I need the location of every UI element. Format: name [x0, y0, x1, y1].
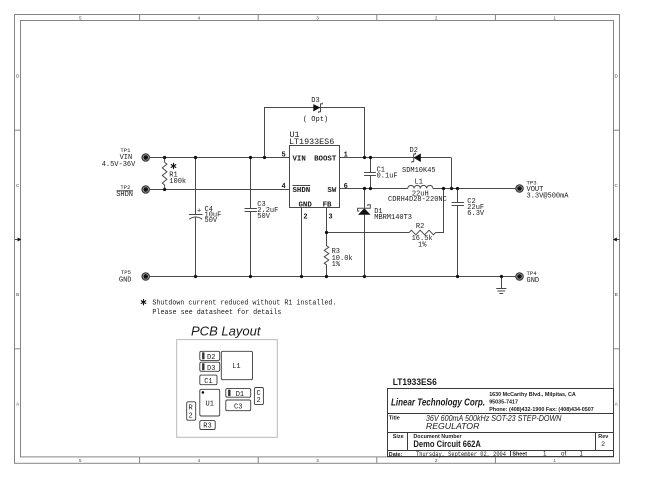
svg-text:SHDN: SHDN — [293, 187, 311, 195]
wire SHDN — [149, 189, 289, 191]
svg-text:50V: 50V — [257, 213, 270, 221]
svg-text:SDM10K45: SDM10K45 — [402, 167, 436, 175]
svg-text:GND: GND — [119, 277, 132, 285]
resistor R3 — [324, 233, 352, 277]
PCB footprint C2 — [254, 388, 263, 406]
svg-text:U1: U1 — [206, 400, 214, 408]
diode D1 — [358, 189, 412, 277]
wire SW — [340, 188, 408, 190]
ground — [496, 277, 506, 294]
svg-text:D1: D1 — [236, 391, 244, 399]
wire U1 FB pin — [326, 208, 328, 233]
svg-text:2: 2 — [435, 16, 438, 21]
test point TP3 — [516, 179, 569, 200]
svg-text:L1: L1 — [415, 179, 423, 187]
svg-text:2: 2 — [189, 412, 193, 420]
note shutdown — [141, 299, 337, 317]
svg-text:GND: GND — [527, 277, 540, 285]
junction dots GND rail — [194, 275, 503, 278]
PCB footprint C1 — [200, 375, 217, 386]
svg-text:5: 5 — [281, 151, 285, 159]
wire U1 GND pin — [301, 208, 303, 277]
svg-text:1: 1 — [553, 458, 556, 463]
svg-text:R3: R3 — [203, 423, 211, 431]
svg-text:2: 2 — [601, 441, 605, 448]
svg-text:3: 3 — [316, 458, 319, 463]
svg-text:C1: C1 — [204, 378, 212, 386]
svg-text:L1: L1 — [232, 363, 240, 371]
svg-text:Sheet: Sheet — [512, 452, 527, 458]
svg-text:R2: R2 — [416, 223, 424, 231]
svg-text:3.3V@500mA: 3.3V@500mA — [527, 193, 570, 201]
svg-text:Linear Technology Corp.: Linear Technology Corp. — [391, 398, 485, 409]
svg-text:of: of — [561, 451, 566, 458]
svg-text:4: 4 — [198, 458, 201, 463]
svg-text:1%: 1% — [418, 242, 427, 250]
svg-text:TP1: TP1 — [120, 147, 131, 154]
svg-text:B: B — [16, 292, 19, 297]
diode D3 (Opt) — [303, 97, 328, 124]
test point TP4 — [516, 270, 539, 285]
svg-text:TP2: TP2 — [120, 184, 130, 191]
PCB footprint R3 — [200, 421, 215, 431]
test point TP1 — [102, 147, 150, 169]
svg-text:CDRH4D28-220NC: CDRH4D28-220NC — [388, 196, 447, 204]
svg-text:Date:: Date: — [389, 452, 403, 458]
capacitor C2 — [452, 189, 485, 277]
svg-text:6: 6 — [344, 183, 348, 191]
svg-text:Phone: (408)432-1900 Fax: (408: Phone: (408)432-1900 Fax: (408)434-0507 — [489, 407, 594, 413]
svg-text:D2: D2 — [410, 147, 418, 155]
svg-text:4: 4 — [281, 183, 285, 191]
svg-text:1: 1 — [543, 451, 547, 458]
junction dot FB node — [325, 231, 328, 234]
svg-text:Size: Size — [393, 434, 404, 440]
svg-text:Please see datasheet for detai: Please see datasheet for details — [152, 309, 281, 317]
svg-text:Demo Circuit 662A: Demo Circuit 662A — [413, 439, 481, 449]
svg-text:4: 4 — [198, 16, 201, 21]
wire GND rail — [149, 276, 516, 278]
svg-text:1%: 1% — [332, 261, 341, 269]
wire D2 to VOUT — [451, 158, 453, 189]
svg-text:GND: GND — [299, 201, 313, 209]
svg-text:2: 2 — [303, 213, 307, 221]
PCB footprint D3 — [200, 362, 220, 373]
wire FB to R2 — [327, 232, 410, 234]
resistor R1 — [162, 158, 186, 190]
svg-text:6.3V: 6.3V — [467, 210, 485, 218]
svg-text:1: 1 — [553, 16, 556, 21]
PCB footprint D2 — [200, 351, 220, 362]
PCB footprint L1 — [221, 351, 252, 379]
svg-text:C3: C3 — [234, 404, 242, 412]
svg-text:LT1933ES6: LT1933ES6 — [393, 377, 437, 387]
svg-text:( Opt): ( Opt) — [303, 116, 328, 124]
svg-text:Shutdown current reduced witho: Shutdown current reduced without R1 inst… — [152, 300, 336, 308]
PCB board outline — [177, 340, 278, 438]
svg-text:REGULATOR: REGULATOR — [426, 421, 480, 431]
PCB footprint C3 — [226, 400, 251, 412]
svg-text:B: B — [615, 292, 618, 297]
test point TP5 — [119, 269, 149, 285]
svg-text:3: 3 — [316, 16, 319, 21]
wire VOUT — [433, 188, 516, 190]
wire D3 branch — [265, 108, 365, 158]
diode D2 — [402, 147, 436, 175]
svg-text:4.5V-36V: 4.5V-36V — [102, 161, 136, 169]
wire VIN rail — [149, 157, 289, 159]
test point TP2 — [116, 184, 149, 199]
svg-text:MBRM140T3: MBRM140T3 — [374, 214, 412, 222]
svg-text:+: + — [197, 207, 201, 215]
svg-text:FB: FB — [323, 201, 332, 209]
svg-text:100k: 100k — [169, 178, 186, 186]
svg-text:95035-7417: 95035-7417 — [489, 399, 518, 405]
svg-text:D2: D2 — [207, 354, 215, 362]
capacitor C1 — [364, 158, 398, 189]
svg-text:5: 5 — [79, 16, 82, 21]
svg-text:Rev: Rev — [598, 434, 608, 440]
svg-text:2: 2 — [257, 397, 261, 405]
svg-text:SW: SW — [327, 187, 336, 195]
svg-text:1: 1 — [580, 451, 584, 458]
svg-text:VIN: VIN — [293, 155, 306, 163]
svg-text:1: 1 — [344, 151, 348, 159]
junction dots VIN row — [163, 156, 266, 159]
svg-text:PCB Layout: PCB Layout — [191, 325, 261, 339]
PCB footprint D1 — [226, 389, 251, 399]
svg-text:LT1933ES6: LT1933ES6 — [289, 137, 334, 147]
svg-text:Thursday, September 02, 2004: Thursday, September 02, 2004 — [416, 451, 506, 458]
PCB footprint U1 — [200, 389, 220, 416]
svg-text:D3: D3 — [311, 97, 319, 105]
PCB layout heading — [191, 325, 261, 339]
svg-text:BOOST: BOOST — [314, 155, 337, 163]
svg-text:0.1uF: 0.1uF — [377, 173, 398, 181]
wire BOOST — [340, 157, 452, 159]
svg-text:TP5: TP5 — [121, 269, 131, 276]
inductor L1 — [388, 179, 447, 204]
svg-text:3: 3 — [328, 213, 332, 221]
resistor R2 — [409, 223, 435, 250]
wire R2 to VOUT — [436, 189, 444, 233]
svg-text:50V: 50V — [205, 217, 218, 225]
PCB footprint R2 — [187, 402, 196, 421]
svg-text:2: 2 — [435, 458, 438, 463]
svg-text:SHDN: SHDN — [116, 191, 133, 199]
capacitor C4 — [189, 158, 221, 277]
junction dots SW-VOUT row — [363, 187, 459, 190]
svg-text:Title: Title — [389, 415, 400, 421]
capacitor C3 — [245, 158, 279, 277]
junction dots BOOST row — [363, 156, 372, 159]
svg-text:1630 McCarthy Blvd., Milpitas,: 1630 McCarthy Blvd., Milpitas, CA — [489, 392, 576, 398]
svg-text:5: 5 — [79, 458, 82, 463]
IC U1 LT1933ES6 — [281, 130, 347, 221]
svg-text:D3: D3 — [207, 365, 215, 373]
junction dot SHDN row — [163, 188, 166, 191]
